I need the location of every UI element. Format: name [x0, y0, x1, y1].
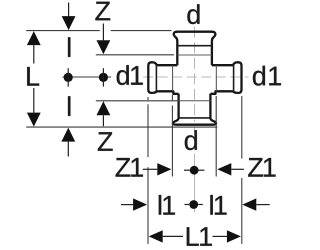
extension line, bottom insertion plane — [96, 100, 179, 102]
main run top wall, left of branch — [157, 64, 178, 66]
dimension Z bottom, arrow onto insertion plane — [97, 101, 111, 115]
dimension L shaft lower — [33, 88, 35, 113]
dimension L arrow down — [27, 113, 41, 127]
dimension L shaft upper — [33, 45, 35, 63]
left socket bead shoulder bottom — [153, 91, 157, 93]
centerline of branch, axis through fitting — [193, 27, 195, 122]
right socket bead shoulder bottom — [233, 91, 237, 93]
stub right of l1 chain dot — [198, 204, 203, 206]
centerline of branch, segment through Z1 and l1 chain dots — [193, 154, 195, 213]
right socket insertion depth line — [215, 65, 217, 91]
dimension Z bottom, arrow shaft at insertion plane — [102, 115, 104, 126]
extension line, right mouth vertical, upper part — [241, 96, 243, 159]
label Z top — [95, 2, 110, 21]
extension line, bottom bead left edge vertical — [171, 106, 173, 177]
label l upper — [68, 37, 70, 57]
extension line, left mouth vertical, lower part — [147, 167, 149, 244]
dimension l1 right, arrow onto right mouth line — [242, 198, 256, 210]
dimension Z top, arrow onto mouth plane — [62, 16, 76, 30]
extension line, left mouth vertical, upper part — [147, 104, 149, 157]
label d1 right — [253, 66, 281, 86]
dimension L1, arrow onto left mouth line — [149, 230, 163, 242]
dimension L arrow up — [27, 31, 41, 45]
top socket bead end line — [177, 45, 212, 47]
label L — [27, 67, 39, 86]
dimension Z top, arrow shaft at insertion plane — [102, 24, 104, 41]
main run top wall, right of branch — [212, 64, 233, 66]
bottom branch socket outline with flared press bead — [173, 94, 216, 125]
left socket bead end line — [155, 65, 157, 91]
dimension l1 left, shaft — [121, 204, 133, 206]
tick through Z chain dot — [102, 68, 104, 86]
dimension Z top, arrow shaft at mouth plane — [68, 3, 70, 17]
extension line, bottom bead left edge vertical, upper dash — [171, 95, 173, 100]
chain dot, l dimension on run centerline — [64, 73, 73, 82]
extension line, bottom bead right edge vertical — [215, 96, 217, 177]
dimension L1, left shaft — [163, 235, 183, 237]
dimension Z1 left, shaft — [143, 168, 158, 170]
dimension l1 right, shaft — [256, 204, 269, 206]
centerline of main run, dash-dot axis through fitting — [143, 76, 248, 78]
label d bottom — [185, 130, 197, 150]
label Z1 right — [248, 158, 275, 177]
label L1 — [187, 227, 212, 246]
dimension Z top, arrow onto insertion plane — [97, 40, 111, 54]
extension line, bottom mouth plane — [26, 126, 217, 128]
chain dot, Z dimension on run centerline — [99, 73, 108, 82]
dimension Z bottom, arrow onto mouth plane — [61, 128, 75, 142]
left socket mouth face and press bead — [148, 62, 153, 93]
dimension Z1 right, shaft — [231, 168, 244, 170]
stub left of l1 chain dot — [185, 204, 190, 206]
top socket insertion depth line — [177, 54, 212, 56]
top branch socket outline with flared press bead — [174, 32, 216, 65]
tick through l chain dot — [67, 68, 69, 86]
extension line, left mouth vertical, upper dash — [147, 97, 149, 100]
label Z1 left — [116, 158, 143, 177]
dimension L1, right shaft — [213, 235, 227, 237]
extension line, top mouth plane, left part — [26, 30, 100, 32]
centerline of branch, dash above bottom d label — [193, 127, 195, 132]
extension line, right mouth vertical, lower part — [241, 178, 243, 244]
dimension Z1 left, arrow onto bead edge — [157, 163, 171, 175]
dimension Z1 right, arrow onto bead edge — [217, 163, 231, 175]
bottom socket bead end line — [179, 117, 211, 119]
main run bottom wall right with junction step — [210, 91, 233, 94]
label d1 left — [117, 65, 143, 85]
bottom socket insertion depth line — [179, 100, 211, 102]
extension line, top mouth plane, right part — [111, 30, 172, 32]
chain dot, Z1 dimensions on branch centerline — [190, 166, 199, 175]
left socket bead shoulder top — [153, 62, 157, 65]
left socket insertion depth line — [172, 65, 174, 91]
dimension Z bottom, arrow shaft at mouth plane — [67, 142, 69, 157]
extension line, top insertion plane — [96, 54, 174, 56]
right socket mouth face and press bead — [237, 62, 242, 93]
label l1 right — [210, 195, 226, 215]
dimension l1 left, arrow onto left mouth line — [133, 198, 147, 210]
dimension L1, arrow onto right mouth line — [227, 230, 241, 242]
stub left of Z1 chain dot — [184, 169, 190, 171]
centerline of main run, dimension-line segment through chain dots — [63, 76, 112, 78]
label l1 left — [159, 195, 175, 215]
main run bottom wall left with junction step — [157, 91, 179, 94]
right socket bead end line — [233, 65, 235, 91]
label Z bottom — [98, 132, 113, 151]
stub right of Z1 chain dot — [199, 169, 205, 171]
right socket bead shoulder top — [233, 62, 237, 65]
label d top — [187, 4, 199, 24]
chain dot, l1 dimensions on branch centerline — [189, 200, 198, 209]
label l lower — [68, 96, 70, 116]
